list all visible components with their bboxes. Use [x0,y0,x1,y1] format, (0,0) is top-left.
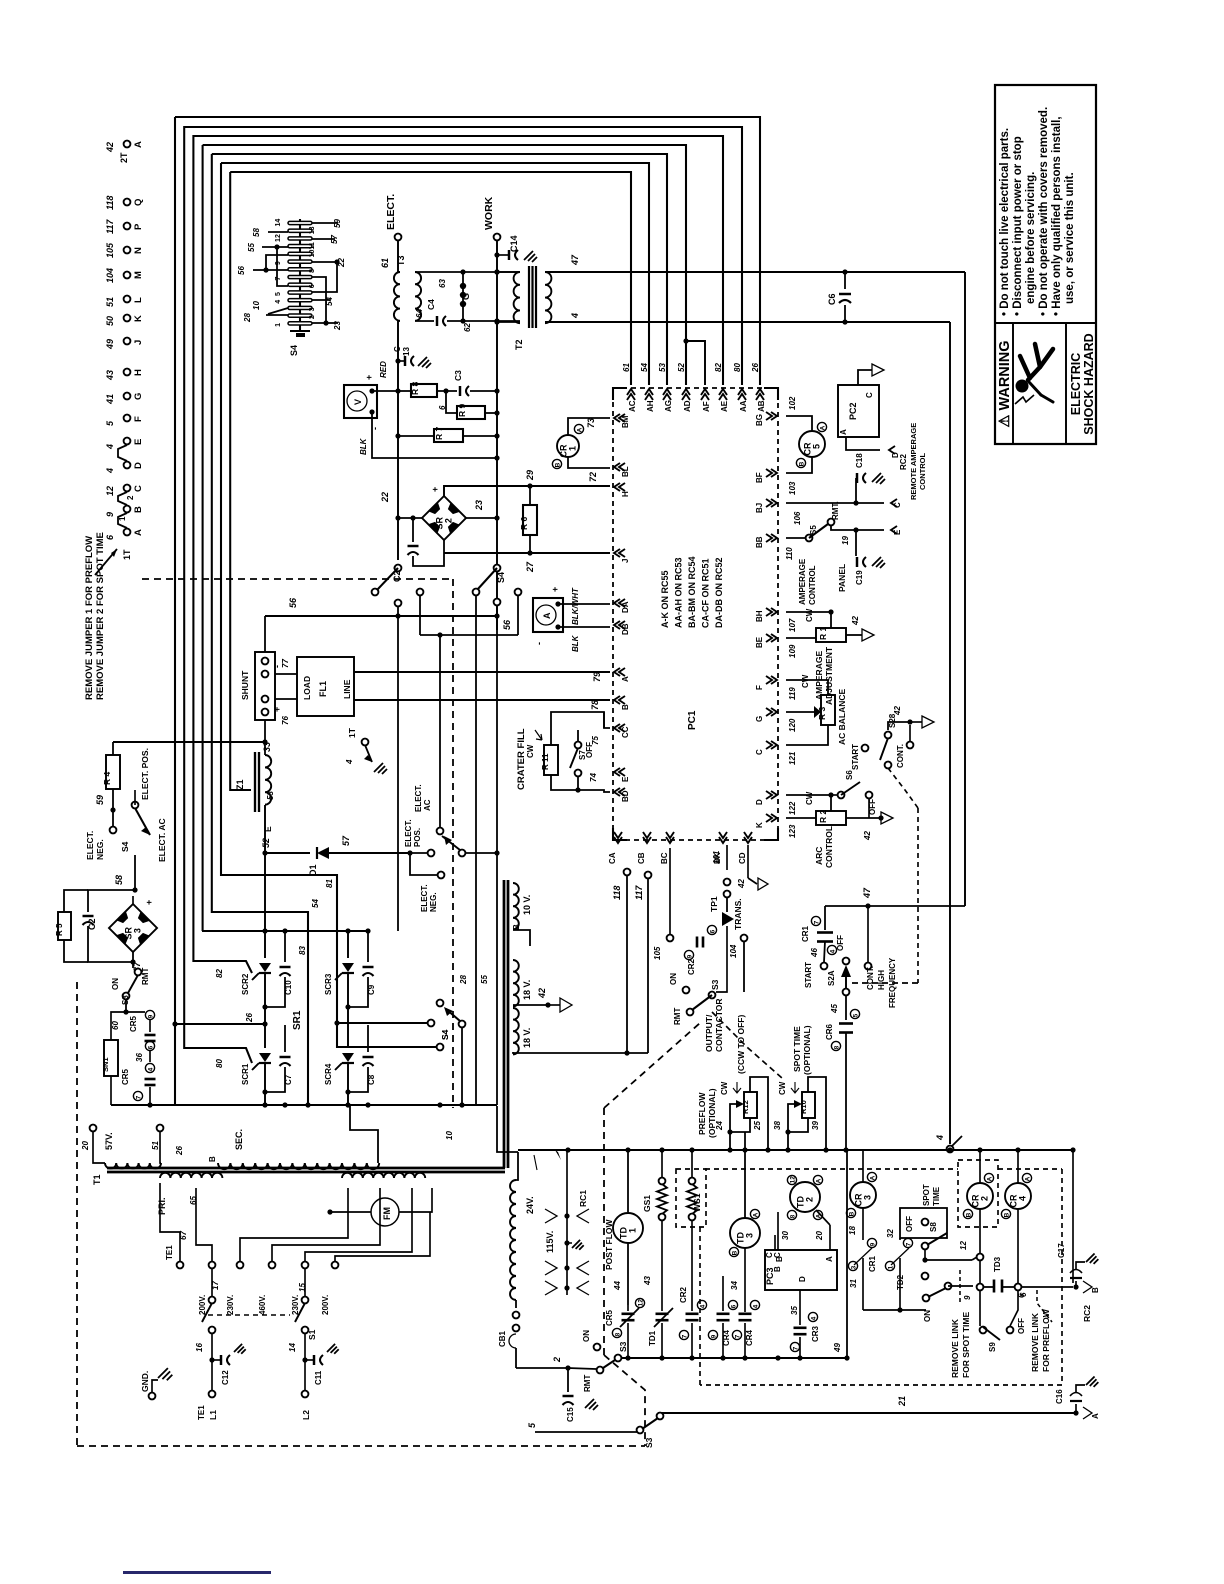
svg-text:R 2: R 2 [818,810,828,824]
svg-text:BE: BE [755,636,764,648]
potentiometer R3 [821,695,835,725]
wire 107 BH [786,611,831,613]
svg-text:CA-CF ON RC51: CA-CF ON RC51 [701,558,711,628]
svg-text:64: 64 [415,309,424,318]
capacitor C13 [395,358,400,363]
svg-text:2: 2 [309,315,316,319]
svg-text:23: 23 [333,321,342,331]
svg-text:+: + [272,707,282,712]
svg-text:S3: S3 [644,1437,654,1448]
switch S28 start [862,745,869,752]
svg-text:A: A [1024,1176,1031,1181]
wire bus line 3 [193,136,723,385]
svg-text:ON: ON [582,1330,591,1342]
terminal L2 [302,1391,309,1398]
svg-text:PRI.: PRI. [157,1197,167,1215]
svg-text:RMT: RMT [673,1008,682,1025]
svg-text:21: 21 [897,1396,907,1407]
contact HF cont [867,906,869,963]
svg-text:3: 3 [850,1265,857,1269]
svg-text:49: 49 [833,1343,842,1353]
svg-text:B: B [1091,1287,1100,1293]
svg-text:C3: C3 [453,370,463,381]
svg-text:ELECT.: ELECT. [385,194,397,230]
svg-text:R 5: R 5 [55,923,64,936]
svg-text:T2: T2 [514,339,524,350]
svg-text:AC: AC [423,799,432,811]
svg-text:CW: CW [778,1081,787,1095]
svg-text:42: 42 [737,879,746,889]
terminal Q [124,199,131,206]
wire 109 BE [786,637,816,639]
svg-text:RC2: RC2 [1082,1305,1092,1322]
wires 118 117 long verticals [624,869,631,876]
capacitor C10 [284,931,286,962]
relay CR5 coil [799,431,825,457]
bus control top [518,1149,1073,1151]
resistor R7 [398,435,434,437]
svg-text:CW: CW [801,674,810,688]
wire V- BLK [372,412,497,458]
svg-text:56: 56 [237,266,246,275]
connector PC1 box [613,388,778,840]
terminal F [124,415,131,422]
relay contact CR2 output [684,950,693,959]
svg-text:PREFLOW: PREFLOW [697,1092,707,1135]
timer TD3 circle [730,1218,760,1248]
svg-text:K: K [133,315,144,322]
wire 78 [355,699,610,701]
svg-text:53: 53 [658,363,667,372]
svg-text:4: 4 [105,468,115,474]
svg-text:10 V.: 10 V. [522,895,532,915]
thyristor SCR4 [347,1025,349,1048]
svg-text:SEC.: SEC. [234,1129,244,1150]
svg-text:S2A: S2A [827,970,836,986]
wire 23 to WORK [466,517,497,519]
svg-text:118: 118 [612,886,622,900]
wire 59 [112,789,114,810]
svg-text:ELECT.: ELECT. [85,831,95,860]
wire 21 [658,1412,1076,1414]
wire bottom CR1 TD2 join [863,1309,926,1311]
svg-text:22: 22 [337,258,346,268]
jumper 2 terminal B-C [118,492,127,505]
svg-text:CW: CW [526,744,535,758]
svg-text:105: 105 [105,242,115,258]
svg-text:BLK: BLK [359,437,368,455]
svg-text:24: 24 [715,1121,724,1131]
svg-text:C2: C2 [87,918,97,930]
svg-text:4: 4 [1018,1196,1028,1201]
switch S8 box [900,1208,947,1238]
svg-text:4: 4 [752,1304,759,1308]
svg-text:DA-DB ON RC52: DA-DB ON RC52 [714,557,724,628]
wire 24V top to bus [516,1152,518,1180]
svg-text:CR5: CR5 [121,1068,130,1085]
svg-text:74: 74 [589,773,598,782]
svg-text:V: V [353,399,363,405]
svg-text:42: 42 [851,616,860,626]
svg-text:16: 16 [195,1343,204,1352]
svg-text:P: P [133,223,144,230]
potentiometer R11 [544,745,558,775]
svg-text:230V.: 230V. [226,1295,235,1315]
wire 42 center tap [513,1004,548,1006]
svg-text:30: 30 [781,1231,790,1240]
svg-text:42: 42 [863,831,872,841]
wire DA [558,603,610,605]
svg-text:AE: AE [720,400,729,412]
svg-text:A: A [621,676,630,682]
svg-text:50: 50 [105,316,115,326]
svg-text:110: 110 [785,547,794,560]
svg-text:ON: ON [111,978,120,990]
svg-text:R 4: R 4 [102,772,112,786]
svg-text:ON: ON [923,1310,932,1322]
svg-text:D: D [798,1276,807,1282]
svg-text:C16: C16 [1055,1389,1064,1404]
remove jumper note arrow [95,549,117,575]
contact CR4 b [750,1300,759,1309]
svg-text:A: A [839,429,848,435]
wire PC3 D to CR3 [799,1290,801,1325]
svg-text:CR3: CR3 [811,1325,820,1342]
svg-text:47: 47 [862,887,872,899]
svg-text:BJ: BJ [755,503,764,513]
svg-text:FM: FM [382,1207,392,1220]
svg-text:TD3: TD3 [993,1256,1002,1272]
svg-text:A: A [133,141,144,148]
wire TP1 101 up [726,845,728,870]
svg-text:52: 52 [677,363,686,372]
wire bus left vertical 2 gate 80 [184,126,252,1063]
svg-text:460V.: 460V. [258,1295,267,1315]
wire 42 cont [888,722,910,730]
switch S5 amperage [786,537,806,539]
svg-text:BB: BB [755,536,764,548]
svg-text:19: 19 [841,536,850,545]
svg-text:9: 9 [275,261,282,265]
timer TD1 post flow [627,1150,629,1212]
svg-text:G: G [755,716,764,722]
thyristor SCR1 [264,1025,266,1048]
svg-text:7: 7 [813,920,820,924]
capacitor C18 [855,478,857,503]
bus SR1 top [202,930,368,932]
capacitor C14 [497,254,508,256]
wire node 58 [134,790,136,805]
transformer T2 core [528,266,530,328]
wire 4 right vertical [949,322,951,1144]
svg-text:7: 7 [275,277,282,281]
svg-text:12: 12 [105,486,115,496]
svg-text:CR1: CR1 [868,1255,877,1272]
svg-text:S4: S4 [496,572,506,583]
wire 24 25 [730,1104,736,1150]
wire from 18V bottom [513,1052,648,1053]
transformer T2 secondary coil [545,272,551,323]
svg-text:7: 7 [734,1334,741,1338]
connector PC1 bottom pins [614,837,622,843]
svg-text:6: 6 [730,1304,737,1308]
resistor R8 [398,390,411,392]
svg-text:F: F [133,416,144,422]
rectifier SR3 [109,904,157,952]
svg-text:K: K [755,822,764,828]
svg-text:C: C [755,749,764,755]
svg-text:5: 5 [852,1013,859,1017]
wire 37 [132,952,134,962]
svg-text:22: 22 [380,492,390,503]
wire 106 BJ [786,502,856,504]
capacitor C8 [367,1025,369,1052]
svg-text:26: 26 [175,1146,184,1156]
svg-text:SR1: SR1 [292,1010,303,1030]
svg-text:M: M [133,271,144,279]
svg-text:S3: S3 [618,1341,628,1352]
svg-text:AC BALANCE: AC BALANCE [837,688,847,745]
svg-text:RMT: RMT [141,968,150,985]
svg-text:200V.: 200V. [321,1295,330,1315]
coil 57V [105,1163,161,1169]
svg-text:3: 3 [745,1233,755,1238]
contact CR5 bottom [635,1298,644,1307]
svg-text:G: G [133,393,144,400]
wire L2 [304,1333,306,1390]
svg-text:26: 26 [245,1013,254,1023]
svg-text:AB: AB [757,400,766,412]
svg-text:B: B [208,1156,217,1162]
wire 52 to SCR [264,853,266,931]
wire bus left vertical 4 [202,145,204,931]
svg-text:POS.: POS. [413,828,422,847]
svg-text:RMT.: RMT. [831,501,840,520]
svg-text:44: 44 [613,1281,622,1291]
transformer T2 primary coil [514,272,520,323]
svg-text:CONTROL: CONTROL [824,826,834,868]
wire 57 [329,852,410,854]
capacitor C6 [842,269,847,274]
svg-text:SPOT TIME: SPOT TIME [792,1026,802,1072]
contact TD2 bottom [899,1238,901,1240]
wire 123 K [786,817,816,819]
svg-text:E: E [133,439,144,445]
switch S9 [979,1261,981,1283]
coil 18V b [513,1008,519,1054]
svg-text:6: 6 [709,929,716,933]
wire S4 28 [266,314,288,316]
wire 121 C [786,725,828,745]
svg-text:A: A [825,1256,834,1262]
wire bus line 4 [203,145,686,385]
svg-text:1: 1 [887,1265,894,1269]
svg-text:B: B [773,1266,782,1272]
inductor Z1 [254,752,256,812]
wire 105 [669,848,671,934]
svg-text:14: 14 [288,1343,297,1352]
svg-text:CONTROL: CONTROL [918,453,927,490]
dashed link S28 [888,768,918,808]
terminal M [124,272,131,279]
svg-text:ADJUSTMENT: ADJUSTMENT [824,646,834,705]
resistor R4 [106,755,120,789]
svg-text:C: C [893,502,902,508]
svg-text:S1: S1 [307,1329,317,1340]
svg-text:61: 61 [380,258,390,268]
svg-text:B: B [965,1212,972,1217]
svg-text:18 V.: 18 V. [522,980,532,1000]
svg-text:C: C [393,346,402,352]
svg-text:RMT: RMT [583,1375,592,1392]
svg-text:101: 101 [712,850,721,864]
svg-text:DB: DB [621,623,630,635]
dashed link S2A S2B [852,982,918,984]
svg-text:10: 10 [309,249,316,257]
svg-text:AD: AD [683,400,692,412]
svg-text:REMOVE JUMPER 2 FOR SPOT TIME: REMOVE JUMPER 2 FOR SPOT TIME [95,532,106,700]
svg-text:J: J [621,559,630,563]
node G [462,272,464,321]
svg-text:TE1: TE1 [165,1245,174,1260]
svg-text:B: B [775,1256,784,1262]
svg-text:8: 8 [309,269,316,273]
svg-text:78: 78 [590,700,600,710]
wire 120 G [786,711,814,713]
svg-text:82: 82 [215,969,224,978]
svg-text:SPOT: SPOT [922,1184,931,1206]
wire S4 58 [268,231,288,233]
svg-text:L2: L2 [301,1410,311,1420]
svg-text:45: 45 [830,1004,839,1014]
svg-text:PC1: PC1 [687,710,698,730]
svg-text:C18: C18 [855,453,864,468]
svg-text:CR2: CR2 [687,958,696,975]
wire bus to 24V primary [497,1106,518,1152]
contact TD1 [661,1290,663,1311]
svg-text:28: 28 [459,975,468,985]
svg-text:105: 105 [653,946,662,960]
svg-text:BLK: BLK [571,634,580,652]
wire bus left vertical 7 [230,172,251,790]
svg-text:TRANS.: TRANS. [733,898,743,930]
svg-text:+: + [144,900,154,905]
svg-text:ELECT.: ELECT. [420,884,429,912]
contact CR2 bottom [697,1300,706,1309]
svg-text:NEG.: NEG. [95,839,105,860]
svg-text:117: 117 [634,885,644,900]
relay CR4 coil [1005,1183,1031,1209]
wire 27 J [443,540,445,553]
svg-text:• Do not operate with covers r: • Do not operate with covers removed. [1038,107,1050,316]
svg-text:ELECTRIC: ELECTRIC [1069,353,1083,416]
svg-text:4: 4 [147,1067,154,1071]
svg-text:12: 12 [275,234,282,242]
terminal ELECT. [395,234,402,241]
relay CR2 coil [967,1183,993,1209]
svg-text:54: 54 [311,899,320,908]
svg-text:C12: C12 [221,1370,230,1385]
svg-text:Q: Q [133,199,144,206]
svg-text:9: 9 [710,1334,717,1338]
svg-text:SCR1: SCR1 [241,1063,250,1085]
switch S8 contacts [922,1243,929,1250]
capacitor C3 [459,386,461,396]
motor FM [371,1198,399,1226]
svg-text:120: 120 [788,718,797,732]
svg-text:62: 62 [463,323,472,332]
svg-text:60: 60 [111,1021,120,1030]
svg-text:TD1: TD1 [648,1330,657,1346]
svg-text:4: 4 [570,313,580,319]
svg-text:C7: C7 [284,1074,293,1085]
svg-text:PC2: PC2 [848,402,858,420]
svg-text:S5: S5 [809,525,818,535]
svg-text:A: A [815,1178,822,1183]
svg-text:C6: C6 [827,293,837,305]
svg-text:B: B [621,704,630,710]
svg-text:OFF: OFF [905,1216,914,1232]
svg-text:82: 82 [714,363,723,372]
svg-text:3: 3 [133,928,143,933]
svg-text:32: 32 [886,1229,895,1238]
svg-text:AMPERAGE: AMPERAGE [814,651,824,700]
bus control bottom [621,1357,847,1359]
capacitor C7 [284,1025,286,1052]
svg-text:ELECT. POS.: ELECT. POS. [140,748,150,800]
switch S3 on-rmt bottom [594,1344,601,1351]
svg-text:AG: AG [664,400,673,412]
svg-text:6: 6 [1019,1292,1028,1297]
svg-text:CB1: CB1 [498,1330,507,1347]
terminal D [124,462,131,469]
svg-text:OFF: OFF [1017,1318,1026,1334]
svg-text:C15: C15 [566,1407,575,1422]
svg-text:27: 27 [525,561,535,573]
svg-text:SCR2: SCR2 [241,973,250,995]
svg-text:BD: BD [621,790,630,802]
wire R12 loop [750,1077,768,1150]
transformer T4 core [503,880,506,1168]
svg-text:56: 56 [502,619,512,630]
svg-text:2: 2 [444,518,454,523]
svg-text:A: A [1091,1413,1100,1419]
svg-text:use, or service this unit.: use, or service this unit. [1064,172,1076,304]
transformer T1 core [107,1167,505,1170]
svg-text:START: START [804,962,813,988]
svg-text:S8: S8 [929,1222,938,1232]
svg-text:109: 109 [788,644,797,658]
terminal N [124,247,131,254]
svg-text:59: 59 [95,795,105,805]
svg-text:A: A [819,425,826,430]
dashed S1 link [208,1314,290,1316]
svg-text:20: 20 [815,1231,824,1241]
svg-text:4: 4 [275,300,282,304]
svg-text:C: C [133,485,144,492]
svg-text:9: 9 [869,1242,876,1246]
svg-text:S4: S4 [289,345,299,356]
svg-text:RC1: RC1 [578,1190,588,1207]
svg-text:73: 73 [586,418,596,428]
svg-text:G: G [461,293,471,300]
wire TD3 feed [744,1132,746,1218]
svg-text:BM: BM [621,415,630,428]
switch S6 [831,794,838,796]
wire S4 56 [266,255,288,270]
svg-text:CONTROL: CONTROL [808,565,817,605]
wire 61 [397,241,399,272]
